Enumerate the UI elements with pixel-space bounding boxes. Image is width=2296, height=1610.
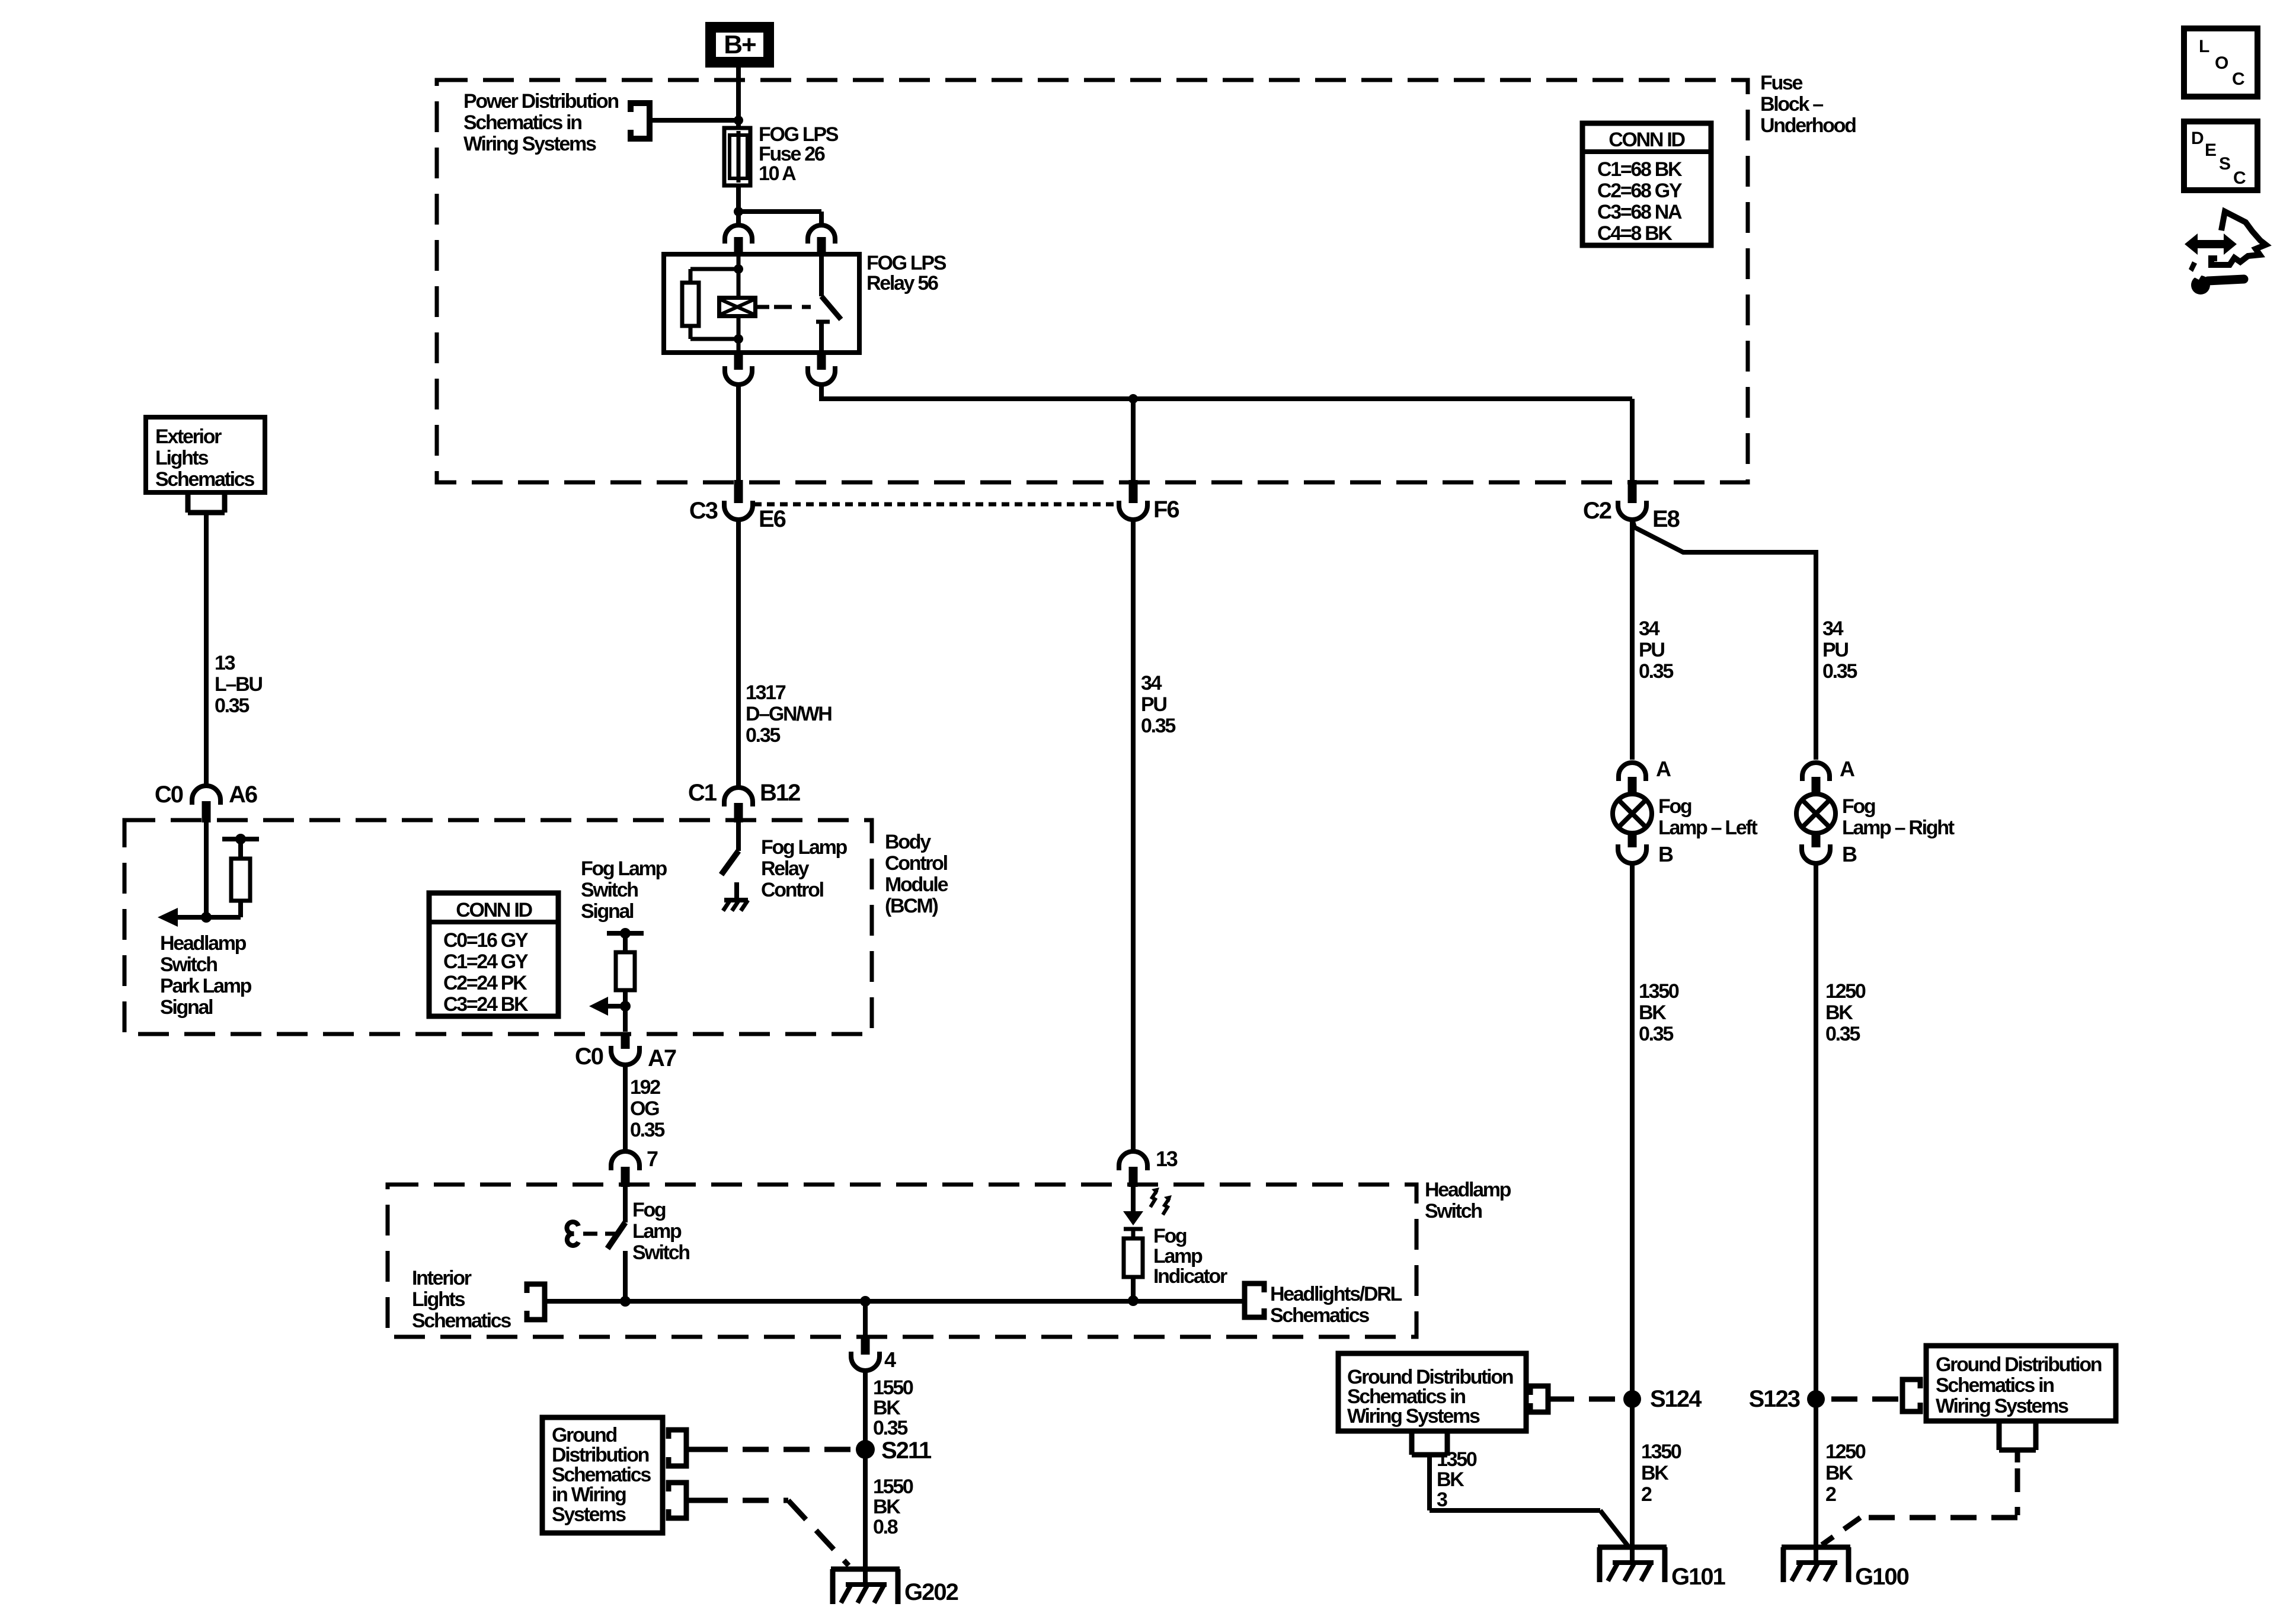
svg-text:Wiring Systems: Wiring Systems <box>463 133 596 155</box>
svg-text:Interior: Interior <box>412 1267 472 1289</box>
svg-text:Schematics: Schematics <box>1270 1304 1369 1327</box>
svg-text:1550: 1550 <box>873 1377 913 1399</box>
svg-text:0.35: 0.35 <box>873 1417 907 1439</box>
svg-text:C4=8 BK: C4=8 BK <box>1597 222 1673 245</box>
svg-text:E: E <box>2205 140 2216 160</box>
svg-text:0.35: 0.35 <box>1822 660 1857 683</box>
svg-text:Ground Distribution: Ground Distribution <box>1936 1353 2102 1376</box>
svg-text:Lights: Lights <box>155 447 209 469</box>
svg-text:0.35: 0.35 <box>215 694 249 717</box>
svg-text:BK: BK <box>1641 1462 1669 1484</box>
svg-text:Wiring Systems: Wiring Systems <box>1936 1395 2068 1417</box>
svg-text:Lamp – Left: Lamp – Left <box>1658 817 1757 839</box>
svg-text:C1=68 BK: C1=68 BK <box>1597 158 1683 181</box>
svg-text:Relay 56: Relay 56 <box>866 272 938 295</box>
svg-text:BK: BK <box>1825 1001 1853 1024</box>
svg-text:Schematics: Schematics <box>155 468 254 491</box>
svg-text:Block –: Block – <box>1760 93 1823 116</box>
svg-text:Wiring Systems: Wiring Systems <box>1347 1405 1480 1427</box>
svg-text:0.35: 0.35 <box>630 1119 664 1141</box>
svg-text:2: 2 <box>1641 1483 1652 1506</box>
svg-text:0.8: 0.8 <box>873 1516 898 1538</box>
svg-text:Fuse: Fuse <box>1760 72 1803 94</box>
svg-text:C2=24 PK: C2=24 PK <box>443 972 527 994</box>
svg-text:G202: G202 <box>904 1579 958 1605</box>
svg-text:Distribution: Distribution <box>552 1444 649 1467</box>
svg-text:C0: C0 <box>155 782 183 808</box>
svg-text:C3=24 BK: C3=24 BK <box>443 993 529 1016</box>
svg-text:BK: BK <box>1437 1468 1464 1491</box>
svg-text:B+: B+ <box>724 30 756 59</box>
svg-text:Ground: Ground <box>552 1424 616 1446</box>
svg-text:F6: F6 <box>1153 497 1179 523</box>
svg-text:D–GN/WH: D–GN/WH <box>746 703 832 725</box>
svg-text:PU: PU <box>1639 639 1664 661</box>
svg-text:1317: 1317 <box>746 681 786 704</box>
svg-text:S124: S124 <box>1650 1386 1702 1412</box>
svg-text:Fog: Fog <box>1153 1225 1187 1247</box>
svg-text:Body: Body <box>885 831 931 853</box>
svg-text:3: 3 <box>1437 1489 1447 1511</box>
svg-text:1550: 1550 <box>873 1475 913 1498</box>
svg-text:BK: BK <box>1639 1001 1667 1024</box>
svg-text:E6: E6 <box>759 506 786 532</box>
svg-text:Lamp – Right: Lamp – Right <box>1842 817 1955 839</box>
svg-text:Power Distribution: Power Distribution <box>463 90 618 113</box>
svg-text:0.35: 0.35 <box>746 724 780 747</box>
svg-text:0.35: 0.35 <box>1639 660 1673 683</box>
svg-text:C0=16 GY: C0=16 GY <box>443 929 529 952</box>
svg-text:34: 34 <box>1822 617 1844 640</box>
svg-text:BK: BK <box>873 1496 901 1518</box>
svg-text:1350: 1350 <box>1437 1448 1477 1471</box>
svg-text:B: B <box>1842 842 1857 866</box>
svg-text:Headlamp: Headlamp <box>1425 1179 1511 1201</box>
svg-text:A: A <box>1840 757 1855 781</box>
svg-text:Schematics: Schematics <box>552 1464 651 1486</box>
svg-text:Switch: Switch <box>160 953 217 976</box>
svg-text:S211: S211 <box>881 1438 932 1464</box>
svg-text:Systems: Systems <box>552 1503 626 1526</box>
svg-text:A7: A7 <box>648 1045 676 1071</box>
svg-text:C: C <box>2232 69 2244 89</box>
svg-text:7: 7 <box>647 1147 658 1171</box>
svg-text:C3: C3 <box>689 498 718 524</box>
svg-text:Headlights/DRL: Headlights/DRL <box>1270 1283 1402 1305</box>
svg-text:192: 192 <box>630 1076 660 1099</box>
svg-text:4: 4 <box>884 1347 896 1372</box>
svg-text:Fog: Fog <box>1658 795 1691 818</box>
svg-text:G100: G100 <box>1855 1564 1909 1590</box>
svg-text:13: 13 <box>215 652 235 674</box>
svg-text:1250: 1250 <box>1825 980 1866 1003</box>
svg-text:Schematics in: Schematics in <box>1936 1374 2054 1397</box>
svg-text:C0: C0 <box>575 1044 603 1070</box>
svg-text:S: S <box>2219 154 2230 174</box>
svg-text:C: C <box>2233 168 2246 188</box>
svg-text:1250: 1250 <box>1825 1441 1866 1463</box>
svg-text:PU: PU <box>1822 639 1848 661</box>
svg-text:C3=68 NA: C3=68 NA <box>1597 201 1682 223</box>
svg-text:0.35: 0.35 <box>1825 1023 1860 1045</box>
svg-text:A6: A6 <box>229 782 257 808</box>
svg-text:Lamp: Lamp <box>1153 1245 1203 1267</box>
svg-text:Lamp: Lamp <box>632 1220 682 1243</box>
svg-text:PU: PU <box>1141 693 1166 716</box>
svg-text:Schematics in: Schematics in <box>463 111 581 134</box>
svg-text:1350: 1350 <box>1639 980 1679 1003</box>
svg-text:G101: G101 <box>1671 1564 1726 1590</box>
svg-text:Fog Lamp: Fog Lamp <box>581 857 667 880</box>
svg-text:Control: Control <box>885 852 948 875</box>
svg-text:Signal: Signal <box>160 996 213 1019</box>
svg-text:E8: E8 <box>1652 506 1680 532</box>
svg-text:BK: BK <box>1825 1462 1853 1484</box>
svg-text:Switch: Switch <box>632 1241 689 1264</box>
svg-text:Lights: Lights <box>412 1288 465 1311</box>
svg-text:Fog: Fog <box>632 1199 666 1221</box>
svg-text:CONN ID: CONN ID <box>456 899 532 921</box>
svg-text:34: 34 <box>1141 672 1162 694</box>
svg-text:OG: OG <box>630 1097 659 1120</box>
svg-text:L–BU: L–BU <box>215 673 262 696</box>
svg-text:CONN ID: CONN ID <box>1609 129 1685 151</box>
svg-text:Park Lamp: Park Lamp <box>160 975 252 997</box>
svg-text:Underhood: Underhood <box>1760 114 1856 137</box>
svg-text:D: D <box>2191 129 2204 148</box>
svg-text:Fog: Fog <box>1842 795 1875 818</box>
svg-text:10 A: 10 A <box>759 162 796 185</box>
svg-text:13: 13 <box>1156 1147 1178 1171</box>
svg-text:2: 2 <box>1825 1483 1836 1506</box>
svg-text:Relay: Relay <box>761 857 810 880</box>
svg-text:(BCM): (BCM) <box>885 895 938 917</box>
svg-text:Exterior: Exterior <box>155 425 222 448</box>
svg-text:0.35: 0.35 <box>1141 715 1175 737</box>
svg-text:B12: B12 <box>760 780 800 806</box>
svg-text:Schematics: Schematics <box>412 1310 511 1332</box>
svg-text:C1: C1 <box>688 780 717 806</box>
svg-text:L: L <box>2199 37 2209 56</box>
svg-text:C1=24 GY: C1=24 GY <box>443 950 529 973</box>
svg-text:Module: Module <box>885 873 948 896</box>
svg-text:Fog Lamp: Fog Lamp <box>761 836 848 859</box>
svg-text:0.35: 0.35 <box>1639 1023 1673 1045</box>
svg-text:Indicator: Indicator <box>1153 1265 1227 1288</box>
svg-text:C2: C2 <box>1583 498 1611 524</box>
svg-text:O: O <box>2215 53 2228 73</box>
svg-text:Switch: Switch <box>581 879 638 901</box>
svg-text:FOG LPS: FOG LPS <box>866 252 946 274</box>
svg-text:34: 34 <box>1639 617 1660 640</box>
svg-text:A: A <box>1656 757 1671 781</box>
svg-text:1350: 1350 <box>1641 1441 1681 1463</box>
svg-text:C2=68 GY: C2=68 GY <box>1597 180 1683 202</box>
svg-text:B: B <box>1658 842 1673 866</box>
svg-text:S123: S123 <box>1749 1386 1800 1412</box>
svg-text:Signal: Signal <box>581 900 634 923</box>
svg-text:Control: Control <box>761 879 824 901</box>
svg-text:Headlamp: Headlamp <box>160 932 247 955</box>
svg-text:in Wiring: in Wiring <box>552 1484 626 1506</box>
svg-text:Switch: Switch <box>1425 1200 1482 1222</box>
svg-text:BK: BK <box>873 1397 901 1419</box>
